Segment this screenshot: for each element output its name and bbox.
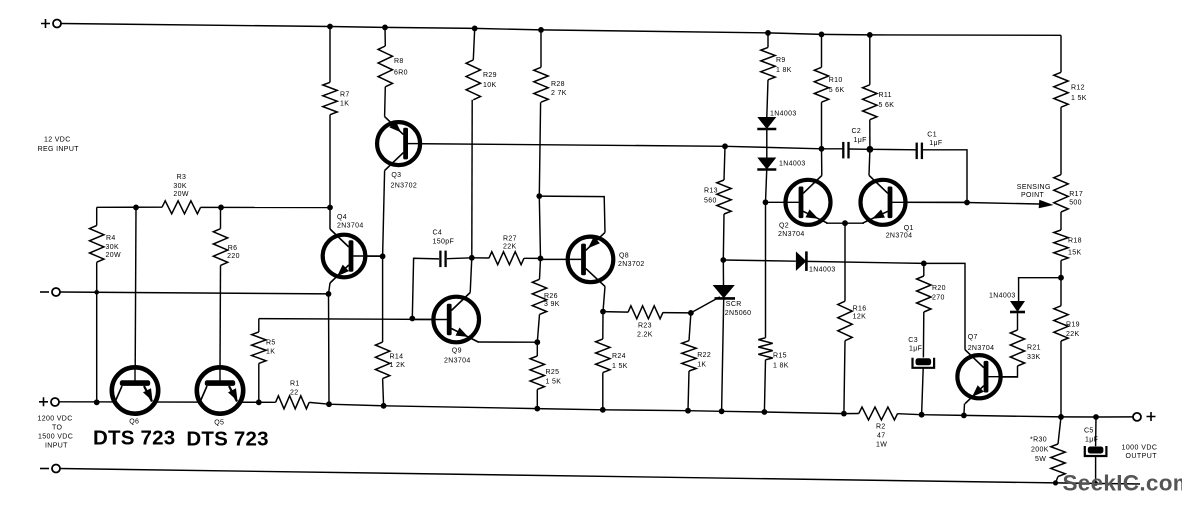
svg-text:Q5: Q5 [214, 420, 224, 427]
wire R23 right lead [663, 312, 691, 314]
wire R11 to C junction [869, 120, 871, 150]
junction R7 top rail [327, 24, 333, 30]
wire R17 to R18 [1060, 212, 1062, 230]
resistor R27 [489, 252, 524, 265]
svg-text:1μF: 1μF [854, 137, 867, 144]
svg-text:Q8: Q8 [619, 253, 629, 260]
svg-text:3 9K: 3 9K [544, 301, 560, 308]
svg-text:Q7: Q7 [968, 334, 978, 341]
svg-text:C2: C2 [852, 128, 862, 135]
wire node down to R27 node [539, 196, 540, 258]
junction R11 top rail [867, 32, 873, 38]
transistor Q1 2N3704 [861, 180, 906, 225]
svg-text:1 8K: 1 8K [776, 67, 792, 74]
svg-text:R22: R22 [697, 352, 711, 359]
wire Q2 emitter line [826, 222, 864, 224]
diode D4 1N4003 [1010, 301, 1025, 312]
wire Q8 collector down [603, 286, 605, 311]
wire R29 down to C4 node [471, 100, 473, 258]
svg-text:5W: 5W [1035, 456, 1046, 463]
junction R5 output rail [256, 399, 262, 405]
svg-text:C1: C1 [927, 132, 937, 139]
resistor R14 [375, 342, 389, 379]
junction Q6 base R3 line [133, 205, 139, 211]
svg-text:R20: R20 [932, 285, 946, 292]
svg-text:R7: R7 [340, 92, 350, 99]
wire R7 top lead [329, 27, 331, 83]
transistor Q9 2N3704 [433, 297, 479, 343]
wire minus mid rail [60, 292, 329, 294]
resistor R16 [838, 301, 852, 341]
svg-text:20W: 20W [106, 252, 121, 259]
svg-text:POINT: POINT [1021, 192, 1045, 199]
svg-text:Q9: Q9 [452, 348, 462, 355]
resistor R17 [1054, 175, 1068, 212]
svg-text:47: 47 [877, 433, 886, 440]
resistor R13 [717, 180, 731, 214]
capacitor C2 [842, 142, 844, 159]
wire R30 top lead [1058, 417, 1061, 444]
wire emitters down to R16 [844, 223, 846, 301]
wire R11 top lead [869, 35, 871, 85]
wire R22 top lead [689, 313, 691, 341]
wire R16 to rail [844, 341, 845, 414]
svg-text:1W: 1W [876, 442, 887, 449]
node Q4 base Q3 collector [380, 253, 386, 259]
wire diode row [723, 260, 796, 261]
wire R23 left lead [603, 311, 628, 314]
wire Q7 emitter to rail [963, 404, 966, 416]
wire R14 top lead [382, 256, 384, 342]
wire R24 top lead [602, 312, 604, 339]
resistor R9 [761, 47, 775, 79]
wire C1 left lead [870, 148, 917, 151]
junction R6 top R3 line [218, 205, 224, 211]
node SCR gate R22 R23 [688, 310, 694, 316]
svg-text:2N3702: 2N3702 [618, 261, 645, 268]
svg-text:R18: R18 [1068, 238, 1082, 245]
resistor R20 [917, 276, 931, 312]
wire C2 node to Q2 collector [821, 149, 823, 176]
wire R6 to Q5 base [219, 265, 222, 368]
capacitor C3 [916, 358, 932, 365]
svg-text:R8: R8 [394, 58, 404, 65]
junction C3 output rail [919, 412, 925, 418]
svg-text:200K: 200K [1031, 447, 1049, 454]
wire Q9 emitter line [478, 341, 537, 343]
svg-text:Q4: Q4 [337, 214, 347, 221]
svg-text:Q6: Q6 [129, 419, 139, 426]
wire R14 to rail [383, 379, 384, 406]
wire D3 cathode to R20 node [807, 261, 924, 263]
minus sign mid [40, 291, 49, 293]
svg-text:1μF: 1μF [929, 140, 942, 147]
wire R13 to SCR node [722, 214, 725, 260]
transistor Q3 2N3702 [377, 122, 420, 165]
wire node to R19 [1060, 278, 1062, 306]
svg-text:R29: R29 [483, 72, 497, 79]
svg-text:15K: 15K [1068, 250, 1082, 257]
resistor R6 [213, 229, 227, 266]
wire R12 top lead [1060, 35, 1062, 72]
node Q2 base diodes [763, 199, 769, 205]
wire Q9 collector up [470, 258, 472, 293]
svg-text:R26: R26 [544, 293, 558, 300]
resistor R4 [90, 226, 104, 263]
svg-text:SCR: SCR [726, 301, 742, 308]
wire bottom - rail [60, 469, 1140, 485]
wire R5 top lead [258, 319, 260, 332]
svg-text:1K: 1K [266, 349, 275, 356]
junction R13 top Q3 base line [722, 143, 728, 149]
node R28 Q8 emitter branch [536, 193, 542, 199]
svg-text:R13: R13 [704, 188, 718, 195]
wire R24 to rail [602, 373, 604, 410]
SCR 2N5060 triangle [713, 285, 735, 298]
junction SCR cathode output rail [719, 408, 725, 414]
wire rail R1 to R2 [309, 402, 859, 413]
svg-text:1200 VDC: 1200 VDC [38, 416, 73, 423]
junction Q4 line output rail [326, 401, 332, 407]
wire R8 top lead [384, 27, 386, 46]
resistor R7 [323, 82, 337, 114]
plus sign +12V [41, 19, 50, 28]
wire R10 to C2 node [821, 102, 823, 149]
wire C2 right lead [849, 148, 870, 150]
wire R27 left lead [472, 257, 489, 259]
resistor R19 [1054, 306, 1068, 341]
svg-text:R24: R24 [612, 353, 626, 360]
wire D1 to D2 [766, 130, 768, 158]
terminal + HV input [51, 398, 59, 406]
wire R6 top lead [220, 207, 222, 228]
junction C5 bottom rail [1093, 481, 1098, 486]
transistor Q6 DTS723 [112, 367, 158, 413]
wire R8 to Q3 emitter [384, 87, 387, 117]
wire R21 to Q7 base [990, 366, 1018, 377]
wire output + rail [59, 401, 276, 404]
node C1 Q1 base sensing [964, 200, 970, 206]
resistor R2 [859, 407, 898, 420]
wire R30 bottom lead [1056, 477, 1059, 483]
junction R28 top rail [538, 27, 544, 33]
resistor R5 [252, 332, 266, 363]
svg-text:SENSING: SENSING [1017, 184, 1051, 191]
wire R13 top lead [724, 146, 725, 180]
svg-text:2N3704: 2N3704 [886, 233, 913, 240]
junction R4 minus rail [94, 290, 99, 295]
junction R29 top rail [472, 26, 478, 32]
resistor R29 [466, 60, 480, 100]
wire R20 to C3 [922, 312, 924, 358]
wire R9 to D1 [767, 80, 768, 117]
terminal - mid input [52, 288, 60, 296]
wire Q4 emitter down [329, 283, 331, 404]
wire node to R25 [536, 342, 538, 356]
wire Q6 base line [134, 207, 137, 368]
wire R28 to node [539, 102, 540, 196]
capacitor C4 [439, 251, 441, 268]
resistor R12 [1054, 72, 1068, 107]
resistor R15 [758, 338, 772, 360]
svg-text:Q1: Q1 [904, 225, 914, 232]
wire R3 node line [97, 206, 162, 208]
resistor R23 [628, 306, 663, 319]
svg-text:2N5060: 2N5060 [725, 310, 752, 317]
svg-text:30K: 30K [106, 244, 120, 251]
wire D2 to Q2 base node [766, 168, 767, 202]
wire R27 right lead [524, 257, 541, 259]
svg-text:R19: R19 [1066, 322, 1080, 329]
svg-text:R12: R12 [1071, 85, 1085, 92]
svg-text:*R30: *R30 [1030, 437, 1047, 444]
wire C4 left lead [412, 258, 439, 318]
transistor Q4 2N3704 [323, 235, 366, 278]
svg-text:1 5K: 1 5K [546, 378, 562, 385]
svg-text:R2: R2 [876, 424, 886, 431]
junction R10 top rail [819, 32, 825, 38]
node R13 SCR anode [720, 257, 726, 263]
junction R24 output rail [600, 407, 606, 413]
svg-text:22: 22 [290, 390, 299, 397]
wire diode branch from node [1019, 278, 1061, 301]
junction Q7 emitter output rail [961, 413, 967, 419]
svg-text:R3: R3 [177, 174, 187, 181]
wire R25 to rail [536, 389, 538, 408]
node Q1 Q2 emitters R16 [842, 220, 848, 226]
junction R25 output rail [534, 406, 540, 412]
node R18 R19 D4 branch [1058, 275, 1064, 281]
wire R7 bottom lead [329, 115, 331, 208]
wire R27 node to R26 [540, 258, 541, 279]
svg-text:1N4003: 1N4003 [770, 111, 797, 118]
wire SCR gate [691, 297, 720, 313]
node Q9 base [409, 316, 415, 322]
minus sign bottom [40, 468, 49, 470]
svg-text:1μF: 1μF [909, 346, 922, 353]
wire R10 top lead [821, 34, 823, 67]
resistor R1 [276, 396, 310, 409]
wire R20 top lead [923, 263, 925, 276]
svg-text:270: 270 [932, 295, 945, 302]
wire top +12V rail [61, 24, 1061, 36]
node C4 R27 R29 [469, 255, 475, 261]
svg-text:1μF: 1μF [1085, 437, 1098, 444]
svg-text:1K: 1K [340, 101, 349, 108]
svg-text:R15: R15 [773, 353, 787, 360]
resistor R26 [532, 279, 546, 314]
plus sign HV [39, 397, 48, 406]
wire R22 to rail [688, 371, 689, 411]
wire C2 left lead [822, 148, 844, 150]
capacitor C1 [916, 143, 918, 160]
wire R26 to emitter node [537, 314, 539, 342]
junction R4 output rail [94, 399, 100, 405]
wire Q3 base line [408, 144, 821, 149]
wire Q3 collector down [383, 171, 385, 257]
svg-text:2 7K: 2 7K [551, 90, 567, 97]
wire Q8 emitter up to R28 node [539, 196, 605, 232]
wire Q4 base to node [353, 255, 383, 257]
svg-text:R5: R5 [266, 340, 276, 347]
diode D1 1N4003 [757, 117, 776, 129]
svg-text:OUTPUT: OUTPUT [1126, 453, 1158, 460]
resistor R18 [1054, 230, 1068, 260]
resistor R30 [1051, 444, 1065, 477]
node Q9 emitter R25 R26 [534, 339, 540, 345]
wire D4 to R21 [1017, 313, 1019, 330]
wire Q1 base to sensing [892, 202, 1039, 204]
wire Q4 collector up [329, 208, 331, 230]
node R11 C1 C2 Q1 collector [867, 146, 874, 153]
svg-text:1N4003: 1N4003 [779, 161, 806, 168]
junction R22 output rail [685, 408, 691, 414]
svg-text:20W: 20W [173, 191, 188, 198]
diode D2 1N4003 [757, 158, 776, 170]
svg-text:R9: R9 [776, 57, 786, 64]
diode D3 1N4003 [796, 251, 807, 271]
svg-text:12 VDC: 12 VDC [44, 137, 71, 144]
wire Q7 collector branch [924, 263, 965, 349]
wire SCR anode [722, 260, 724, 285]
wire R5 to rail [258, 363, 260, 402]
resistor R22 [682, 341, 696, 371]
junction R30 bottom rail [1053, 480, 1058, 485]
svg-text:R25: R25 [546, 369, 560, 376]
svg-text:1K: 1K [697, 362, 706, 369]
resistor R25 [530, 356, 544, 389]
svg-text:1 5K: 1 5K [612, 363, 628, 370]
svg-text:560: 560 [704, 198, 717, 205]
svg-text:10K: 10K [483, 82, 497, 89]
node R10 C2 Q2 collector [819, 146, 825, 152]
resistor R11 [863, 85, 877, 120]
wire rail R2 to output [898, 414, 1133, 417]
wire R29 top lead [473, 28, 474, 60]
wire R4 down through rails [96, 262, 98, 402]
transistor Q2 2N3704 [786, 180, 831, 225]
resistor R8 [378, 46, 392, 87]
wire R28 top lead [540, 30, 542, 67]
svg-text:Q3: Q3 [391, 172, 401, 179]
svg-text:C3: C3 [908, 337, 918, 344]
svg-text:1500 VDC: 1500 VDC [38, 434, 73, 441]
node R20 D3 Q7 collector [921, 261, 927, 267]
svg-text:R11: R11 [879, 92, 892, 99]
wire R12 to R17 [1060, 107, 1062, 174]
svg-text:5 6K: 5 6K [879, 102, 895, 109]
transistor Q7 2N3704 [957, 355, 1000, 398]
svg-text:1 8K: 1 8K [773, 363, 789, 370]
terminal + output [1133, 413, 1141, 421]
capacitor C5 [1088, 447, 1104, 454]
svg-text:R14: R14 [390, 354, 404, 361]
wiper arrow R17 [1039, 200, 1054, 209]
junction Q4 emitter minus rail [326, 291, 332, 297]
svg-text:R21: R21 [1027, 345, 1041, 352]
svg-text:R16: R16 [853, 305, 867, 312]
svg-text:DTS 723: DTS 723 [186, 428, 268, 451]
svg-text:220: 220 [227, 253, 240, 260]
svg-text:500: 500 [1069, 200, 1082, 207]
wire SCR cathode to rail [722, 299, 724, 412]
wire R9 top lead [767, 33, 769, 48]
wire R19 to output rail [1060, 341, 1062, 417]
svg-text:5 6K: 5 6K [829, 87, 845, 94]
svg-text:12K: 12K [853, 313, 867, 320]
junction C5 output rail [1093, 414, 1099, 420]
wire C3 to rail [922, 368, 924, 415]
junction R19 R30 output rail [1058, 414, 1064, 420]
svg-text:R6: R6 [228, 245, 238, 252]
svg-text:1 5K: 1 5K [1071, 95, 1087, 102]
resistor R10 [814, 67, 828, 102]
wire C1 right to Q1 base node [922, 150, 967, 203]
svg-text:33K: 33K [1027, 354, 1041, 361]
svg-text:2N3704: 2N3704 [444, 358, 471, 365]
svg-text:30K: 30K [173, 183, 187, 190]
junction R7 bottom R3 line [327, 205, 333, 211]
wire R5 to Q9 base line [259, 318, 447, 321]
svg-text:DTS 723: DTS 723 [93, 427, 175, 450]
svg-text:R4: R4 [106, 235, 116, 242]
junction R16 output rail [841, 411, 847, 417]
svg-text:150pF: 150pF [433, 239, 455, 246]
resistor R24 [596, 339, 610, 373]
svg-text:1N4003: 1N4003 [809, 267, 836, 274]
svg-text:R27: R27 [503, 236, 517, 243]
svg-text:SeekIC.com: SeekIC.com [1063, 471, 1182, 496]
transistor Q5 DTS723 [197, 367, 243, 413]
svg-text:Q2: Q2 [779, 223, 789, 230]
svg-text:1000 VDC: 1000 VDC [1122, 445, 1158, 452]
wire Q2 base node down to R15 [765, 202, 767, 337]
wire R18 to node [1060, 260, 1062, 277]
junction R15 output rail [762, 409, 768, 415]
junction R14 output rail [381, 403, 387, 409]
svg-text:R10: R10 [829, 77, 843, 84]
svg-text:2N3702: 2N3702 [391, 183, 418, 190]
resistor R21 [1010, 330, 1024, 366]
svg-text:TO: TO [52, 425, 62, 432]
svg-text:2.2K: 2.2K [637, 332, 653, 339]
junction R9 top rail [765, 30, 771, 36]
svg-text:1 2K: 1 2K [390, 362, 406, 369]
svg-text:2N3704: 2N3704 [337, 223, 364, 230]
svg-text:2N3704: 2N3704 [968, 345, 995, 352]
node R27 R26 [538, 256, 544, 262]
terminal - bottom input [52, 465, 60, 473]
svg-text:6R0: 6R0 [394, 70, 408, 77]
junction R8 top rail [382, 25, 388, 31]
wire R4 corner lead [96, 207, 98, 225]
svg-text:1N4003: 1N4003 [989, 293, 1016, 300]
svg-text:2N3704: 2N3704 [778, 231, 805, 238]
svg-text:C4: C4 [433, 229, 443, 236]
wire C5 bottom lead [1095, 456, 1097, 483]
resistor R3 [162, 201, 201, 214]
transistor Q8 2N3702 [568, 237, 614, 283]
wire R3 to R7 node [201, 206, 330, 208]
wire C junction to Q1 collector [868, 149, 871, 175]
terminal +12V input [53, 20, 61, 28]
node Q8 collector R23 R24 [600, 309, 606, 315]
svg-text:22K: 22K [503, 243, 517, 250]
svg-text:R17: R17 [1069, 191, 1083, 198]
svg-text:REG INPUT: REG INPUT [38, 146, 80, 153]
svg-text:R1: R1 [290, 381, 300, 388]
svg-text:22K: 22K [1066, 331, 1080, 338]
